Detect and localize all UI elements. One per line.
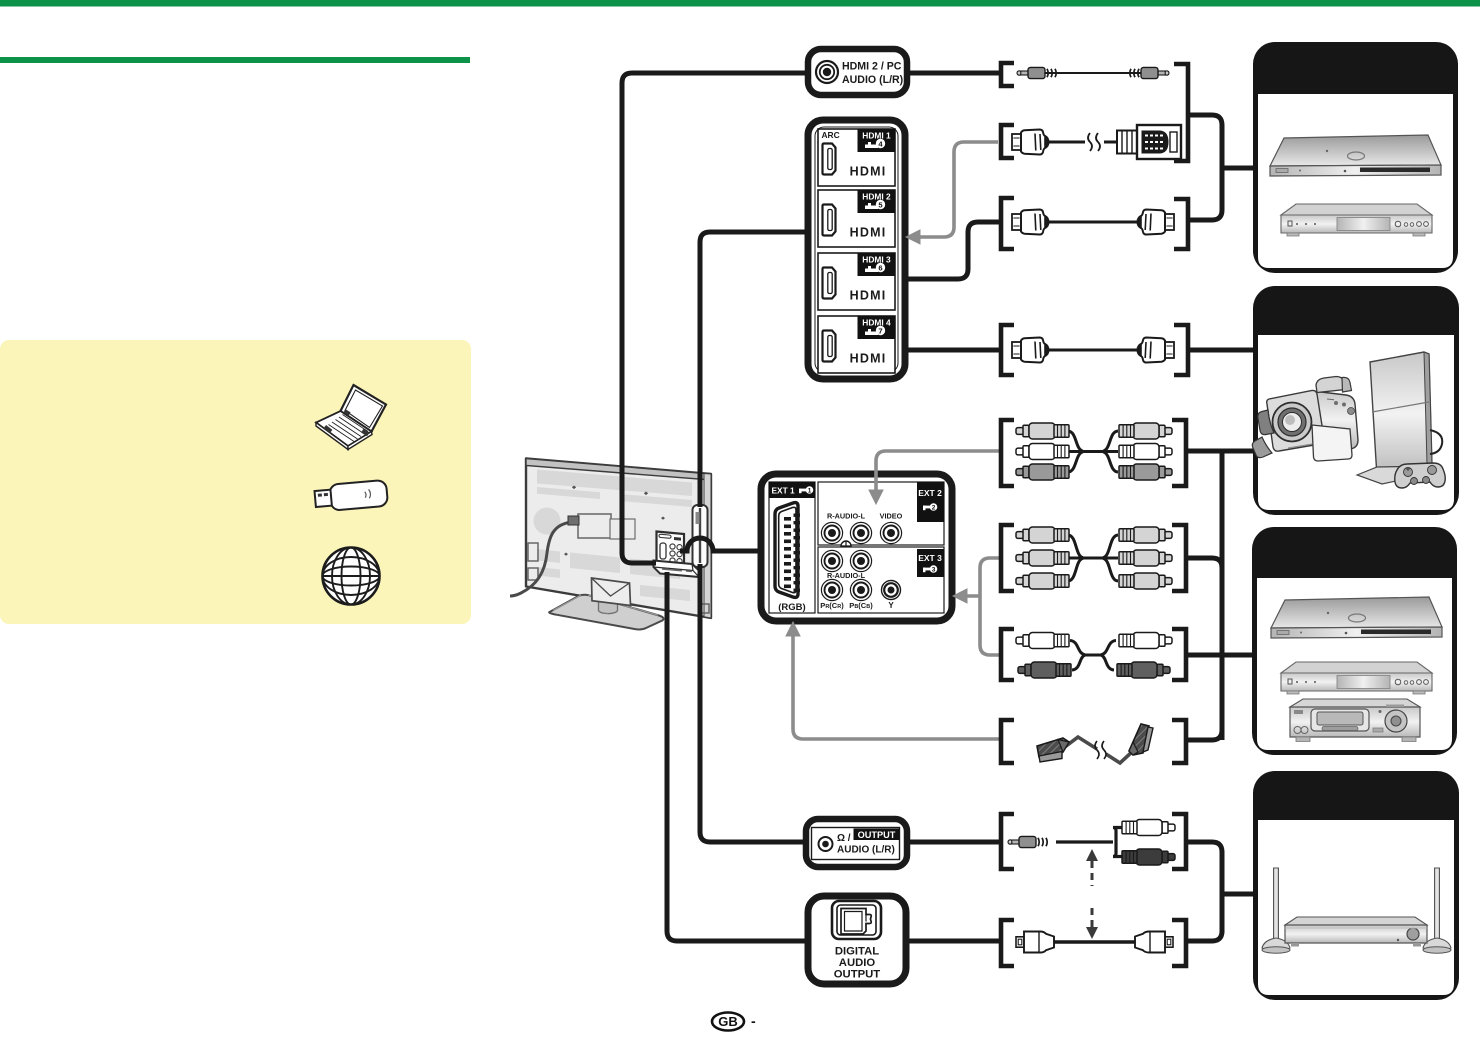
svg-text:OUTPUT: OUTPUT (858, 830, 896, 840)
dashed either-or arrows between Y-cable and optical cable (1086, 849, 1098, 939)
svg-text:AUDIO (L/R): AUDIO (L/R) (837, 845, 895, 856)
cable: optical audio cable (1016, 932, 1173, 953)
svg-text:PR(CR): PR(CR) (820, 601, 844, 610)
bracket right: AV composite cable (1172, 420, 1186, 486)
svg-text:Ω /: Ω / (837, 833, 851, 844)
green section rule (0, 57, 470, 63)
svg-text:EXT 3: EXT 3 (918, 553, 942, 563)
wire: optical cable bracket to merge (1188, 931, 1222, 941)
device box 2: camcorder / game console (1253, 286, 1459, 515)
bracket right: HDMI cable 1 (1174, 199, 1188, 249)
screw marks (564, 486, 665, 588)
left speaker (1274, 868, 1279, 941)
TV stand base (549, 595, 663, 630)
gray wire: SCART cable bracket to EXT1 (RGB) (up arrow) (793, 634, 1000, 739)
VCR illustration (1290, 699, 1420, 742)
wire: HDMI cable bracket to device box 2 (1190, 348, 1256, 353)
wire: junction to device box 1 (1222, 166, 1256, 171)
wire: AV cable bracket to device box 2 (1188, 449, 1256, 454)
cable: AV composite cable (3 RCA) (1016, 423, 1172, 480)
wire: TV side panel to EXT1 panel (with crossover arch) (680, 538, 762, 551)
wire: TV side panel down to DIGITAL AUDIO OUTPUT box (667, 572, 809, 941)
screw (841, 541, 851, 551)
Blu-ray player illustration (1270, 135, 1441, 176)
controller (1395, 463, 1446, 488)
bracket right: SCART cable (1172, 720, 1186, 763)
svg-text:(RGB): (RGB) (778, 602, 805, 613)
TV rear panel (526, 459, 711, 619)
receiver (1285, 917, 1427, 925)
cable: HDMI cable (HDMI4 to game console) (1012, 338, 1174, 363)
wire: DVI+audio tall bracket merge to device box 1 (1190, 115, 1222, 220)
TV side terminal strip (693, 505, 708, 567)
svg-text:HDMI: HDMI (850, 352, 887, 366)
SCART plug right (1129, 724, 1153, 755)
bracket left: HDMI cable 2 (1001, 325, 1014, 375)
device box 4: audio system (1253, 771, 1459, 1000)
svg-text:HDMI 4: HDMI 4 (862, 318, 891, 328)
svg-text:R-AUDIO-L: R-AUDIO-L (827, 512, 866, 521)
right speaker (1435, 868, 1440, 941)
bracket left: optical cable (1001, 920, 1014, 966)
bracket right: audio RCA cable (1172, 629, 1186, 680)
device box 1: Blu-ray / DVD player (1253, 42, 1458, 273)
svg-text:VIDEO: VIDEO (880, 512, 903, 521)
bracket right tall: audio + DVI cables group (1174, 64, 1188, 161)
svg-text:HDMI 2: HDMI 2 (862, 192, 891, 202)
bracket right: HDMI cable 2 (1174, 325, 1188, 375)
rear connector boxes outline detail (578, 514, 611, 538)
headphone / OUTPUT AUDIO (L/R) terminal box (806, 819, 907, 867)
EXT3 component jacks (821, 579, 900, 600)
svg-text:2: 2 (932, 504, 936, 511)
svg-text:DIGITAL: DIGITAL (835, 946, 879, 958)
cable: miniplug to 2 RCA adapter cable (1008, 820, 1175, 866)
cable: HDMI cable (HDMI3 to BD/DVD player) (1012, 210, 1174, 235)
svg-text:GB: GB (718, 1014, 738, 1029)
gray wire: AV cable bracket to EXT2 inputs (down arrow) (876, 451, 1000, 492)
wire: component cable bracket joins merge (1188, 558, 1222, 568)
svg-text:AUDIO (L/R): AUDIO (L/R) (842, 74, 903, 86)
power cord (510, 522, 572, 596)
wire: TV side strip up to HDMI panel (HDMI2) (700, 232, 808, 507)
svg-text:OUTPUT: OUTPUT (834, 969, 881, 981)
wire: DIGITAL AUDIO box to optical cable bracket (904, 939, 1000, 944)
svg-text:PB(CB): PB(CB) (849, 601, 873, 610)
svg-text:HDMI: HDMI (850, 289, 887, 303)
cable: HDMI to DVI cable (1012, 125, 1181, 159)
svg-text:-: - (751, 1013, 756, 1029)
wire: merge vertical to device box 4 (1220, 851, 1225, 933)
DVD player illustration (copy) (1281, 662, 1432, 694)
svg-text:HDMI: HDMI (850, 226, 887, 240)
HDMI 3 port cell (818, 253, 895, 310)
HDMI 2 / PC AUDIO (L/R) terminal box (808, 49, 907, 95)
wire: HDMI2/PC AUDIO box to audio cable bracket (905, 71, 999, 76)
stand column (598, 601, 617, 614)
game console (PS2) illustration (1357, 352, 1445, 488)
cable: PC audio miniplug cable (1017, 67, 1169, 78)
camcorder illustration (1252, 377, 1358, 462)
gray wire: component + audio cable brackets to EXT3 (left arrow) (965, 558, 1000, 655)
svg-text:3: 3 (932, 566, 936, 573)
device box 3: DVD recorder / DVD player / VCR (1252, 527, 1457, 755)
SCART connector icon (775, 503, 798, 598)
bracket right: optical cable (1172, 920, 1186, 966)
EXT3 cell (818, 547, 944, 613)
svg-text:1: 1 (808, 487, 812, 494)
wire: HDMI2/PC AUDIO box to TV side panel (622, 73, 808, 563)
TV stand neck (envelope shape) (592, 578, 631, 606)
wire: merge vertical for AV/component/audio/SCART cables (1220, 451, 1225, 740)
SCART plug left (1037, 738, 1069, 762)
svg-text:7: 7 (878, 326, 882, 335)
svg-text:HDMI 3: HDMI 3 (862, 255, 891, 265)
yellow note box (0, 340, 471, 624)
svg-text:R-AUDIO-L: R-AUDIO-L (827, 571, 866, 580)
EXT2 cell (818, 482, 944, 545)
DVD player illustration (1281, 204, 1432, 236)
HDMI 2 port cell (818, 190, 895, 247)
DVI plug (1117, 125, 1181, 159)
HDMI 1-4 terminal panel (808, 120, 905, 379)
HDMI 1 port cell (ARC) (818, 129, 895, 186)
TV side panel detail (zoom-out plate) (654, 532, 700, 578)
svg-text:HDMI 1: HDMI 1 (862, 131, 891, 141)
cable: SCART cable (1037, 724, 1153, 763)
wire: HDMI panel (HDMI4) to HDMI cable bracket (905, 348, 1000, 353)
bracket left: HDMI cable 1 (1001, 198, 1014, 249)
gray wire: DVI cable bracket to HDMI2 port (arrow) (916, 142, 998, 237)
svg-text:EXT 2: EXT 2 (918, 488, 942, 498)
globe icon (323, 548, 380, 605)
wire: TV strip down to OUTPUT audio box (700, 564, 807, 842)
EXT 1 / EXT 2 / EXT 3 terminal panel (761, 474, 952, 621)
bracket left: audio miniplug cable (1001, 63, 1014, 86)
audio system illustration (1262, 868, 1451, 953)
EXT3 audio jacks (821, 550, 871, 571)
EXT2 jacks (821, 522, 901, 543)
wire: junction to device box 4 (1222, 892, 1256, 897)
side panel base bar (654, 561, 700, 578)
svg-text:HDMI: HDMI (850, 165, 887, 179)
USB wireless dongle icon (314, 480, 388, 512)
top green header bar (0, 0, 1480, 7)
bracket left: audio RCA cable (1001, 629, 1014, 680)
bracket left: AV composite cable (1001, 420, 1014, 486)
Blu-ray player illustration (copy) (1271, 597, 1442, 638)
cable: audio cable (2 RCA white/black) (1016, 633, 1172, 679)
HDMI 4 port cell (818, 316, 895, 373)
bracket right: component cable (1172, 525, 1186, 591)
bracket left: HDMI-DVI cable (1001, 125, 1014, 158)
cable: component cable (3 RCA) (1016, 527, 1172, 589)
wire: OUTPUT audio box to Y-cable bracket (905, 840, 1000, 845)
bracket left: component cable (1001, 525, 1014, 591)
svg-text:ARC: ARC (822, 130, 840, 140)
bracket right: miniplug-RCA cable (1172, 814, 1186, 869)
svg-text:HDMI 2 / PC: HDMI 2 / PC (842, 61, 902, 73)
svg-text:AUDIO: AUDIO (839, 957, 876, 969)
EXT1 SCART cell (769, 482, 815, 613)
wire: HDMI panel (HDMI3) to HDMI cable bracket (905, 222, 999, 279)
DIGITAL AUDIO OUTPUT terminal box (808, 896, 906, 984)
svg-text:EXT 1: EXT 1 (772, 486, 795, 496)
wire: SCART cable bracket joins merge (1188, 730, 1222, 740)
small latch details bottom left (528, 543, 538, 561)
laptop icon (316, 385, 386, 450)
svg-text:6: 6 (878, 263, 882, 272)
GB page mark (712, 1013, 756, 1031)
wire: Y-cable bracket to merge (1188, 842, 1222, 852)
wire: audio cable bracket to device box 3 (1188, 653, 1256, 658)
bracket left: miniplug-RCA cable (1001, 814, 1014, 869)
svg-text:Y: Y (888, 601, 894, 610)
bracket left: SCART cable (1001, 720, 1014, 763)
